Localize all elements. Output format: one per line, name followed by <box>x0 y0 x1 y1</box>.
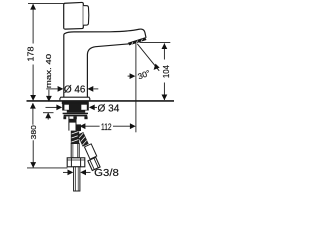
svg-text:104: 104 <box>162 65 171 78</box>
svg-text:Ø 46: Ø 46 <box>64 85 86 96</box>
svg-text:178: 178 <box>27 46 36 62</box>
svg-text:Ø 34: Ø 34 <box>98 104 120 115</box>
svg-text:G3/8: G3/8 <box>94 168 119 179</box>
svg-text:380: 380 <box>29 125 38 139</box>
svg-text:max. 40: max. 40 <box>46 54 53 88</box>
svg-text:112: 112 <box>101 122 112 132</box>
